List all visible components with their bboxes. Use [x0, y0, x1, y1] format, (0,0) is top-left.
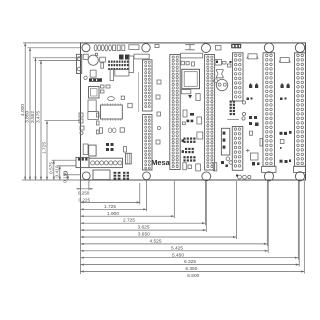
- svg-text:0.225: 0.225: [79, 198, 91, 203]
- dimension 6.500 (bottom): [81, 181, 305, 279]
- two circles below tall rect: [226, 157, 233, 164]
- silk line left of P1: [138, 72, 140, 112]
- header P5 base: [262, 166, 276, 172]
- small rect mid right: [250, 131, 253, 135]
- striped component near bottom: [125, 153, 131, 164]
- left dimension baseline extension: [22, 179, 81, 181]
- mounting hole bottom hole 4: [264, 172, 273, 181]
- wide outline part: [115, 70, 129, 76]
- svg-text:6.500: 6.500: [187, 273, 199, 279]
- dimension 5.425 (bottom): [81, 181, 268, 251]
- dark marks near bottom left of P4: [221, 161, 228, 167]
- IC U2 square: [89, 87, 100, 99]
- small rects above U4: [121, 96, 132, 108]
- dark squares row right: [280, 131, 292, 135]
- dimension 6.325 (bottom): [81, 181, 299, 265]
- dark SMD strip: [89, 78, 102, 82]
- small rect left of P5: [260, 139, 263, 147]
- IC U3: [89, 145, 96, 156]
- parts cluster right of P3 top: [215, 60, 232, 68]
- pin header P1 lower segment: [143, 115, 153, 171]
- pin header P5: [263, 53, 275, 167]
- small marks G: [280, 139, 284, 148]
- bottom connector J2 pin section: [89, 158, 123, 167]
- rect between P2 and P3 upper: [183, 110, 187, 117]
- dimension 1.900 (bottom): [81, 181, 147, 217]
- wide component top row: [129, 45, 139, 50]
- left column tiny parts mid: [97, 113, 100, 134]
- small parts right of U2: [101, 85, 111, 93]
- bottom dark grid 1: [114, 172, 121, 180]
- svg-text:0.575: 0.575: [48, 162, 54, 174]
- white rect flanking hole 3 right: [213, 163, 217, 171]
- svg-text:0.250: 0.250: [78, 191, 90, 196]
- dark bits lower mid: [252, 162, 260, 166]
- white rect mid 2: [197, 132, 203, 139]
- dimension 0.410 (left): [54, 165, 76, 180]
- tall component right of J3: [129, 56, 134, 73]
- plus mark: [246, 149, 250, 152]
- wide IC U4 mid-left: [101, 103, 123, 120]
- small circle part: [84, 76, 87, 79]
- small square part: [90, 70, 96, 77]
- capacitor symbol top middle: [185, 45, 194, 50]
- svg-text:3.850: 3.850: [25, 110, 31, 122]
- pellet circles near bottom edge: [236, 175, 251, 180]
- dimension 1.725 (bottom): [81, 183, 140, 210]
- stacked dark grid block C: [183, 156, 195, 161]
- small parts row under top edge left: [83, 53, 105, 68]
- small caps above FPGA: [181, 61, 194, 66]
- crystal circle: [88, 55, 98, 65]
- svg-text:1.725: 1.725: [42, 142, 48, 154]
- mounting hole top-left: [82, 44, 90, 52]
- three small caps top row: [113, 45, 125, 51]
- SMT cap drawing 1: [247, 54, 259, 59]
- small part top near P3: [216, 46, 222, 51]
- circles right of P4 gap: [242, 101, 246, 120]
- dimension 0.250 (hole offset): [76, 181, 93, 196]
- white rect mid 1: [197, 117, 202, 124]
- mounting hole bottom hole 3: [202, 172, 211, 181]
- part below FPGA: [181, 90, 191, 94]
- dimension 0.575 (left): [48, 160, 76, 180]
- small part top near P2: [155, 45, 159, 48]
- oval pair below U4: [108, 128, 116, 133]
- svg-text:3.475: 3.475: [36, 111, 42, 123]
- dimension 5.450 (bottom): [81, 181, 269, 258]
- bottom left edge connector J2 body: [76, 157, 89, 167]
- PCB board outline: [81, 43, 306, 180]
- diode pair 2: [281, 83, 290, 88]
- pin header P4 lower segment: [232, 127, 243, 171]
- dimension 3.625 (bottom): [81, 181, 206, 231]
- bottom dark grid 2: [123, 172, 129, 180]
- dark pin header block J3 (2x8 grid): [108, 61, 128, 67]
- tall rect left of P4 lower: [221, 128, 229, 155]
- mounting hole bottom hole 2: [143, 172, 151, 180]
- dark triangle mark below FPGA: [188, 95, 192, 99]
- small parts below U4: [99, 128, 126, 152]
- SMT cap drawing 2: [279, 58, 290, 63]
- dark bits rows between P4 P5: [249, 116, 259, 126]
- dimension 0.150 (left): [62, 171, 80, 183]
- dimension 3.650 (bottom): [81, 181, 207, 238]
- left column small parts: [79, 113, 84, 135]
- dimension 3.475 (left): [36, 61, 81, 181]
- tiny marks below diode pair 2: [280, 98, 287, 101]
- dimension 0.225 (hole offset): [79, 198, 91, 203]
- pin header P6: [295, 53, 306, 167]
- svg-text:3.552: 3.552: [30, 111, 36, 123]
- tall part left of U3: [83, 144, 88, 155]
- dark grid in P4 gap: [230, 101, 235, 116]
- stacked dark grid block A: [183, 138, 195, 143]
- dimension 6.350 (bottom): [81, 181, 300, 272]
- diode pair 1: [249, 83, 258, 88]
- wide component below hole 2: [134, 54, 149, 59]
- wide part above FPGA: [181, 53, 203, 58]
- white rect left of bottom hole 3: [183, 163, 187, 170]
- dark squares row below top edge: [119, 55, 130, 60]
- dimension 4.525 (bottom): [81, 181, 237, 245]
- pin header P1 upper segment: [143, 60, 153, 111]
- dimension 3.552 (left): [30, 58, 80, 180]
- oval part above U4: [108, 97, 115, 101]
- dimension 4.000 (left): [20, 43, 81, 180]
- short line in P4 gap: [227, 119, 239, 121]
- FPGA U1: [182, 69, 200, 88]
- svg-text:Mesa: Mesa: [151, 158, 170, 167]
- small circle left of owl: [214, 79, 218, 83]
- small parts left of P2: [156, 80, 161, 144]
- tiny rect near bottom mid: [188, 165, 192, 169]
- svg-text:2.725: 2.725: [123, 218, 135, 224]
- dark connector block on top edge: [231, 44, 241, 48]
- tiny marks below diode pair 1: [247, 98, 253, 101]
- dimension 3.850 (left): [25, 48, 82, 180]
- second hatched strip below J3: [108, 68, 128, 70]
- svg-text:0.410: 0.410: [54, 165, 60, 177]
- header P6 base: [294, 166, 306, 172]
- mounting hole bottom-left: [82, 172, 90, 180]
- Mesa logo: [151, 158, 170, 167]
- bottom edge connector J4: [93, 170, 110, 180]
- mounting hole bottom-right: [295, 172, 304, 181]
- left edge connector J1: [77, 54, 82, 73]
- white rect right-below FPGA: [196, 94, 200, 101]
- dark squares row right lower: [280, 160, 292, 164]
- white rect flanking hole 3 left: [196, 164, 201, 171]
- tall narrow part: [110, 69, 114, 81]
- small circle marker near baseline: [64, 171, 68, 175]
- dark bits cluster MB: [106, 143, 114, 151]
- dark bits mid: [183, 113, 195, 125]
- regulator below U2: [88, 100, 99, 119]
- pin header P4 upper segment: [233, 53, 244, 101]
- hourglass silk shape: [216, 70, 223, 78]
- mounting hole top hole 3: [202, 44, 211, 53]
- mounting hole top hole 2: [142, 44, 150, 52]
- stacked dark grid block B: [185, 148, 194, 153]
- mounting hole top-right: [295, 43, 304, 52]
- dark ticks left edge mid: [182, 139, 184, 153]
- dimension 2.725 (bottom): [81, 181, 175, 224]
- pin header P2: [170, 55, 180, 170]
- dimension 1.725 (left): [42, 121, 81, 180]
- bottom dimension datum extension line: [80, 181, 82, 274]
- owl face circle: [216, 79, 227, 90]
- pin header P3: [205, 55, 215, 171]
- top row of electrolytic capacitors: [94, 45, 111, 51]
- outline rect lower mid: [251, 153, 259, 160]
- mounting hole top hole 4: [264, 43, 273, 52]
